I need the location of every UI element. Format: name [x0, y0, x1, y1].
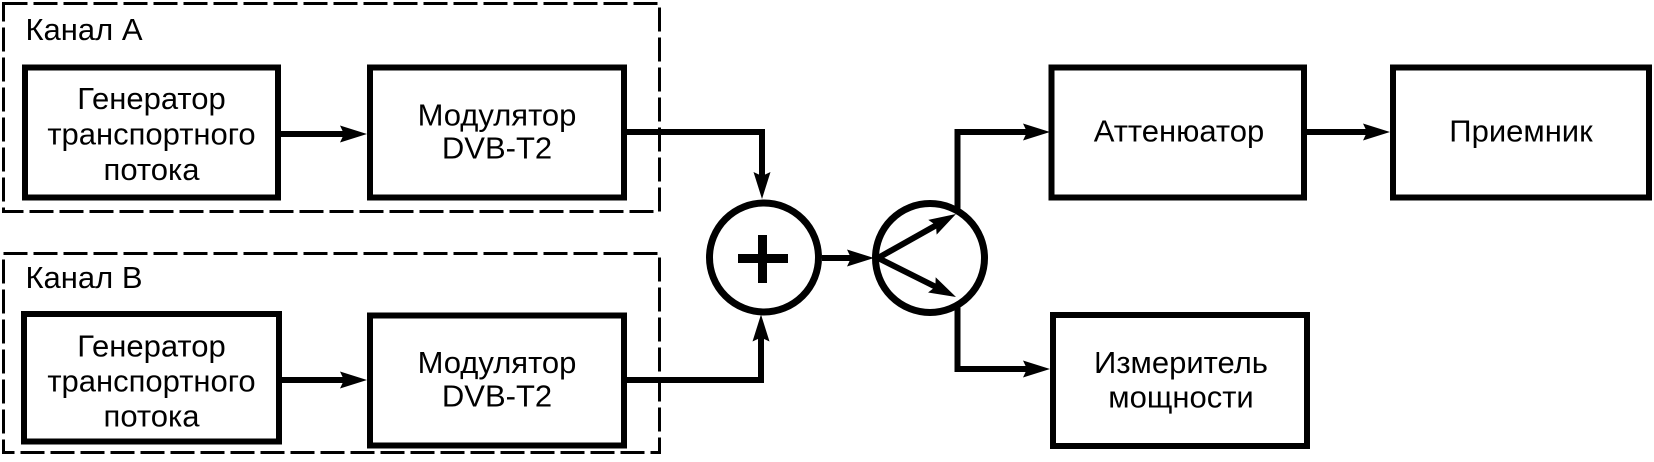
splitter circle U2: [876, 204, 985, 313]
svg-text:потока: потока: [104, 398, 201, 433]
block: DVB-T2 modulator A: [370, 68, 624, 198]
svg-text:Аттенюатор: Аттенюатор: [1094, 113, 1265, 148]
wire: splitter top output to attenuator: [958, 124, 1051, 212]
svg-text:Модулятор: Модулятор: [418, 97, 577, 132]
wire: modulator B output to summer bottom: [627, 315, 770, 381]
svg-text:Приемник: Приемник: [1449, 113, 1593, 148]
channel A dashed enclosure: [4, 4, 660, 212]
svg-text:транспортного: транспортного: [47, 117, 255, 152]
block: transport stream generator A: [25, 68, 278, 198]
channel B dashed enclosure: [4, 254, 660, 453]
svg-text:транспортного: транспортного: [47, 363, 255, 398]
svg-text:Канал A: Канал A: [26, 12, 143, 47]
wire: attenuator to receiver: [1307, 124, 1390, 141]
block: receiver: [1393, 68, 1649, 198]
wire: generator A to modulator A: [281, 126, 367, 143]
wire: summer to splitter: [822, 250, 874, 267]
svg-text:DVB-T2: DVB-T2: [442, 379, 552, 414]
svg-text:Модулятор: Модулятор: [418, 345, 577, 380]
svg-text:Канал B: Канал B: [26, 260, 143, 295]
svg-text:Измеритель: Измеритель: [1094, 345, 1268, 380]
splitter internal arrow up-right: [878, 207, 960, 258]
summer circle U1: [710, 203, 819, 312]
plus sign inside summer: [738, 235, 788, 283]
svg-text:DVB-T2: DVB-T2: [442, 131, 552, 166]
block: power meter: [1053, 315, 1307, 446]
wire: modulator A output to summer top: [627, 132, 771, 199]
block: transport stream generator B: [24, 314, 279, 442]
block: attenuator: [1052, 68, 1305, 198]
wire: generator B to modulator B: [282, 372, 367, 389]
svg-text:мощности: мощности: [1108, 379, 1253, 414]
splitter internal arrow down-right: [878, 258, 960, 305]
svg-text:Генератор: Генератор: [77, 328, 225, 363]
svg-text:потока: потока: [104, 152, 201, 187]
svg-text:Генератор: Генератор: [77, 81, 225, 116]
wire: splitter bottom output to power meter: [958, 305, 1051, 378]
block: DVB-T2 modulator B: [370, 316, 624, 446]
